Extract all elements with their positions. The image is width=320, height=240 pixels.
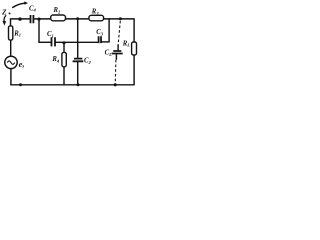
svg-text:R3: R3 bbox=[91, 9, 100, 16]
node R4 tap dot bbox=[62, 41, 65, 44]
svg-text:C4: C4 bbox=[29, 5, 37, 12]
capacitor CL plates bbox=[112, 51, 123, 54]
svg-text:C1: C1 bbox=[47, 31, 54, 38]
svg-text:Z: Z bbox=[1, 7, 7, 16]
wire output riser x109 up to top rail bbox=[108, 18, 110, 42]
wire R4 branch upper bbox=[63, 42, 65, 52]
wire C2 branch upper (crosses middle rail) bbox=[77, 19, 79, 58]
impedance Z arrow bbox=[12, 1, 28, 7]
source es circle bbox=[5, 56, 17, 68]
wire left edge below source bbox=[10, 69, 12, 86]
source es sine symbol bbox=[7, 61, 14, 64]
node load ground dot bbox=[114, 83, 117, 86]
wire middle rail A-corner to C1 bbox=[38, 41, 50, 43]
node input bottom dot bbox=[19, 83, 22, 86]
resistor R4 bbox=[62, 52, 66, 66]
wire right edge upper bbox=[133, 18, 135, 42]
capacitor C2 plates bbox=[73, 59, 84, 62]
svg-text:R4: R4 bbox=[51, 56, 60, 63]
node input top dot bbox=[18, 17, 21, 20]
svg-text:RL: RL bbox=[122, 40, 131, 47]
wire top rail left segment bbox=[11, 18, 30, 20]
svg-text:R1: R1 bbox=[13, 30, 21, 37]
resistor R3 bbox=[89, 15, 104, 20]
wire left edge upper bbox=[10, 18, 12, 26]
node output dot bbox=[119, 17, 122, 20]
svg-text:es: es bbox=[19, 59, 25, 70]
capacitor C4 plates bbox=[31, 15, 34, 23]
wire top rail segment C4 to R2 bbox=[34, 18, 51, 20]
impedance curved arrow into port bbox=[2, 15, 6, 25]
capacitor C1 plates bbox=[52, 37, 56, 46]
wire top rail segment R2 to R3 bbox=[65, 18, 89, 20]
resistor R2 bbox=[51, 15, 66, 21]
svg-text:R2: R2 bbox=[53, 7, 62, 14]
wire middle rail C3 to right corner bbox=[101, 41, 109, 43]
wire left edge between R1 and source bbox=[10, 40, 12, 56]
node C2 ground dot bbox=[77, 83, 80, 86]
node B dot bbox=[76, 17, 79, 20]
node A dot bbox=[37, 18, 40, 21]
wire CL top stub bbox=[117, 44, 119, 50]
wire top rail segment R3 to right corner bbox=[104, 18, 135, 20]
wire middle rail C1 to C3 bbox=[56, 41, 99, 43]
node A drop wire to middle rail bbox=[38, 19, 40, 43]
wire C2 branch lower bbox=[77, 62, 79, 86]
svg-text:C3: C3 bbox=[96, 29, 104, 36]
svg-text:C2: C2 bbox=[84, 58, 92, 65]
wire bottom rail bbox=[10, 84, 134, 86]
resistor RL bbox=[132, 42, 137, 55]
dashed load line lower bbox=[114, 60, 117, 84]
label Z subscript dot bbox=[9, 13, 11, 15]
svg-text:CL: CL bbox=[105, 50, 113, 57]
wire right edge lower bbox=[133, 55, 135, 86]
wire CL bottom stub bbox=[115, 54, 117, 60]
wire R4 branch lower bbox=[63, 67, 65, 86]
capacitor C3 plates bbox=[99, 36, 101, 43]
dashed load line upper bbox=[118, 21, 120, 45]
resistor R1 bbox=[9, 26, 13, 40]
